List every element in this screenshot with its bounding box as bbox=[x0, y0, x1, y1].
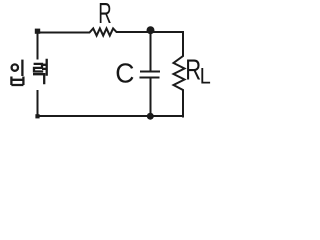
svg-text:R: R bbox=[185, 55, 201, 87]
svg-text:C: C bbox=[115, 57, 134, 89]
svg-text:L: L bbox=[200, 65, 211, 89]
svg-text:R: R bbox=[98, 0, 111, 30]
